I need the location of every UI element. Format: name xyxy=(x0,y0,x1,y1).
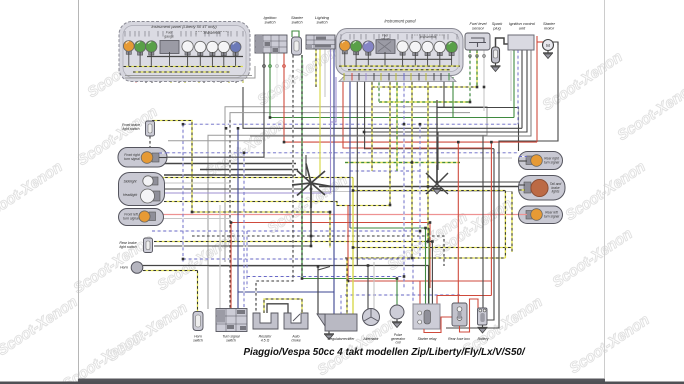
panel bulb white 1 xyxy=(182,41,193,55)
wire xyxy=(198,75,200,83)
panel bulb blue xyxy=(230,42,241,56)
wire xyxy=(371,77,373,171)
wire xyxy=(149,136,151,164)
wire xyxy=(352,178,354,315)
svg-text:Battery: Battery xyxy=(477,337,488,341)
wire xyxy=(168,140,262,142)
wire xyxy=(349,77,351,228)
page bottom shadow bar xyxy=(78,379,605,384)
wire xyxy=(133,71,230,73)
wire xyxy=(160,177,353,179)
bulb violet p2 xyxy=(363,41,374,55)
wire xyxy=(424,317,452,333)
wire xyxy=(208,266,330,268)
rear right turn signal xyxy=(519,152,563,170)
svg-text:Rear fuse box: Rear fuse box xyxy=(448,337,470,341)
bulb white p2 1 xyxy=(397,41,408,55)
wire xyxy=(428,228,430,304)
wire xyxy=(264,299,302,313)
wire xyxy=(182,124,184,262)
front brake light switch xyxy=(146,121,155,136)
wire xyxy=(519,156,527,158)
wire xyxy=(145,75,147,83)
wire xyxy=(519,184,525,186)
wire xyxy=(395,73,397,81)
wire xyxy=(154,241,432,243)
wire xyxy=(143,265,429,267)
bulb white p2 2 xyxy=(410,41,421,55)
junction star 1 xyxy=(292,164,331,209)
bulb white p2 3 xyxy=(422,41,433,55)
instrument panel (Liberty 50 4T only) xyxy=(119,22,255,82)
wire xyxy=(389,77,391,205)
svg-text:Sidelight: Sidelight xyxy=(123,180,137,184)
wire xyxy=(238,291,334,293)
wire xyxy=(220,75,222,83)
starter switch xyxy=(292,37,302,55)
front right turn signal xyxy=(118,148,167,168)
wire xyxy=(436,100,438,184)
wire xyxy=(443,77,445,108)
wire xyxy=(242,75,244,83)
wire xyxy=(448,73,450,81)
wire xyxy=(319,186,521,188)
wire xyxy=(536,36,538,142)
wire xyxy=(348,280,491,282)
wire xyxy=(513,50,515,118)
wire xyxy=(318,267,330,271)
wire xyxy=(310,191,512,193)
wire xyxy=(302,278,397,280)
wire xyxy=(425,228,427,304)
wire xyxy=(437,181,521,183)
wire xyxy=(452,77,454,118)
indicator bulb orange xyxy=(123,41,134,55)
wire xyxy=(283,53,285,142)
wire xyxy=(151,75,153,83)
fuel gauge 2 xyxy=(376,40,395,54)
wire xyxy=(437,108,519,152)
wire xyxy=(230,223,232,309)
wire xyxy=(250,50,531,136)
wire xyxy=(161,152,519,154)
wire xyxy=(124,66,244,68)
fuel gauge 1 xyxy=(160,41,179,54)
wire xyxy=(339,65,460,67)
rear fuse box xyxy=(452,303,467,326)
wire xyxy=(143,270,198,272)
wire xyxy=(292,31,299,37)
wire xyxy=(164,192,331,194)
wire xyxy=(348,69,450,71)
panel bulb white 2 xyxy=(195,41,206,55)
instrument panel 2 xyxy=(336,19,463,82)
page left edge xyxy=(78,0,80,378)
ground spark plug xyxy=(491,64,501,72)
svg-text:Rear brakelight switch: Rear brakelight switch xyxy=(119,241,136,249)
wire xyxy=(425,73,427,81)
wire xyxy=(269,53,271,118)
wire xyxy=(228,75,230,83)
svg-text:Lightingswitch: Lightingswitch xyxy=(315,15,330,25)
wire xyxy=(350,170,420,172)
wire xyxy=(519,160,527,162)
wire xyxy=(419,281,421,304)
wire xyxy=(345,294,460,296)
wire xyxy=(553,42,558,45)
wire xyxy=(192,236,444,266)
bulb green p2 xyxy=(350,41,361,55)
wire xyxy=(152,230,420,232)
wire xyxy=(446,42,558,328)
wire xyxy=(284,141,537,143)
wire xyxy=(152,121,192,213)
wire xyxy=(343,77,491,148)
wire xyxy=(333,48,335,314)
wire xyxy=(237,128,239,308)
ground regulator xyxy=(324,332,334,340)
front left turn signal xyxy=(119,209,164,226)
page right edge xyxy=(604,0,606,378)
wire xyxy=(213,75,215,83)
junction dots xyxy=(283,141,286,144)
wire xyxy=(162,214,519,216)
wire xyxy=(247,276,404,278)
svg-text:Headlight: Headlight xyxy=(123,193,138,197)
ground pulse coil xyxy=(392,320,402,328)
wire xyxy=(510,50,512,101)
wire xyxy=(330,48,332,193)
wire xyxy=(388,73,390,81)
svg-text:Front leftturn signal: Front leftturn signal xyxy=(123,213,139,221)
ignition control unit xyxy=(508,35,534,50)
lighting switch xyxy=(306,35,335,49)
wire xyxy=(154,245,311,247)
wire xyxy=(364,131,438,133)
wire xyxy=(437,132,439,170)
wire xyxy=(178,75,180,83)
svg-text:Alternator: Alternator xyxy=(362,337,379,341)
wire xyxy=(418,73,420,81)
turn signal switch xyxy=(216,309,247,332)
svg-text:Ignitionswitch: Ignitionswitch xyxy=(264,15,278,25)
wire xyxy=(159,152,167,154)
wire xyxy=(427,77,429,242)
junction star 2 xyxy=(426,165,448,194)
svg-text:Horn: Horn xyxy=(120,266,128,270)
wire xyxy=(411,77,413,258)
bulb white p2 4 xyxy=(434,41,445,55)
wire xyxy=(364,77,366,149)
wire xyxy=(125,66,255,78)
wire xyxy=(436,296,438,305)
wire xyxy=(164,174,296,176)
wire xyxy=(343,73,345,81)
wire xyxy=(378,77,380,102)
wire xyxy=(315,48,317,87)
wire xyxy=(267,304,288,313)
ground starter motor xyxy=(543,51,553,59)
wire xyxy=(517,50,519,124)
bottom strip xyxy=(0,382,684,384)
wire xyxy=(346,258,348,314)
wire xyxy=(345,162,460,164)
wire xyxy=(317,267,319,315)
wire xyxy=(331,77,337,122)
tail and brake lights xyxy=(519,176,566,201)
wire xyxy=(208,107,487,309)
wire xyxy=(428,266,430,305)
wire xyxy=(345,257,505,259)
wire xyxy=(183,123,518,125)
panel 2 internal bus xyxy=(356,58,452,60)
wire xyxy=(483,50,485,111)
rear brake light switch xyxy=(144,238,153,253)
bulb orange p2 xyxy=(339,40,350,54)
wire xyxy=(490,142,492,295)
wire xyxy=(270,117,514,119)
wire xyxy=(347,205,349,281)
indicator bulb green 1 xyxy=(134,41,145,55)
wire xyxy=(256,55,293,313)
wire xyxy=(440,73,442,81)
wire xyxy=(356,77,358,266)
wire xyxy=(329,212,331,248)
wire xyxy=(183,259,413,304)
wire xyxy=(431,242,433,305)
wire xyxy=(396,77,398,171)
panel bulb white 3 xyxy=(207,41,218,55)
bulb green p2 right xyxy=(446,41,457,55)
wire xyxy=(162,218,231,220)
wire xyxy=(229,120,231,309)
svg-text:Hornswitch: Hornswitch xyxy=(193,335,203,343)
panel 1 internal bus xyxy=(147,56,243,58)
wire xyxy=(231,223,430,289)
wire xyxy=(170,75,172,83)
horn xyxy=(131,262,143,274)
wire xyxy=(164,202,390,206)
svg-text:Instruments: Instruments xyxy=(420,35,437,39)
wire xyxy=(352,190,505,192)
wire xyxy=(125,75,252,77)
wire xyxy=(340,295,342,314)
pulse generator coil xyxy=(390,305,404,319)
wire xyxy=(469,50,471,102)
wire xyxy=(319,48,321,178)
wire xyxy=(511,192,513,253)
wire xyxy=(403,77,405,288)
svg-text:Piaggio/Vespa 50cc 4 takt mode: Piaggio/Vespa 50cc 4 takt modellen Zip/L… xyxy=(243,347,525,358)
wire xyxy=(373,262,375,309)
svg-text:Startermotor: Startermotor xyxy=(543,21,556,31)
wire xyxy=(403,73,405,81)
wire xyxy=(504,191,506,259)
wire xyxy=(310,189,312,246)
wire xyxy=(243,153,245,309)
wire xyxy=(351,73,353,81)
wire xyxy=(264,157,512,159)
wire xyxy=(350,227,429,229)
svg-text:M: M xyxy=(546,43,550,48)
wire xyxy=(537,41,543,43)
wire xyxy=(159,157,167,159)
wire xyxy=(419,124,421,259)
wire xyxy=(230,113,470,120)
wire xyxy=(324,48,326,97)
fuel level sensor xyxy=(465,33,490,50)
svg-text:Front rightturn signal: Front rightturn signal xyxy=(124,153,141,161)
wire xyxy=(437,295,491,297)
starter relay xyxy=(413,304,440,329)
wire xyxy=(482,135,484,308)
wire xyxy=(365,73,367,81)
wire xyxy=(496,38,510,47)
wire xyxy=(373,73,375,81)
wire xyxy=(305,155,307,176)
wire xyxy=(380,73,382,81)
svg-text:Rear leftturn signal: Rear leftturn signal xyxy=(544,211,559,219)
wire xyxy=(379,101,470,103)
horn switch xyxy=(193,312,203,331)
wire xyxy=(476,50,478,87)
svg-text:Rear rightturn signal: Rear rightturn signal xyxy=(544,157,560,165)
wire xyxy=(519,189,525,191)
svg-text:Autochoke: Autochoke xyxy=(291,335,300,343)
wire xyxy=(396,279,398,307)
rear left turn signal xyxy=(519,206,563,224)
wire xyxy=(164,182,230,184)
wire xyxy=(167,53,264,157)
wire xyxy=(192,211,330,213)
svg-text:Starter relay: Starter relay xyxy=(417,337,436,341)
wire xyxy=(457,142,459,303)
panel bulb white 4 xyxy=(218,41,229,55)
wire xyxy=(219,205,221,309)
svg-text:Regulatorrectifier: Regulatorrectifier xyxy=(328,337,355,341)
headlight unit xyxy=(119,173,165,206)
wire xyxy=(152,163,296,165)
wire xyxy=(460,299,479,332)
wire xyxy=(235,75,237,83)
svg-text:Front brakelight switch: Front brakelight switch xyxy=(122,123,140,131)
ground battery xyxy=(478,325,488,333)
wire xyxy=(364,148,494,150)
wire xyxy=(161,188,303,190)
svg-text:Instruments: Instruments xyxy=(204,31,221,35)
wire xyxy=(410,73,412,81)
wire xyxy=(358,73,360,81)
wire xyxy=(276,53,278,97)
wire xyxy=(203,75,205,83)
wire xyxy=(352,247,512,249)
wire xyxy=(243,87,522,128)
wire xyxy=(519,214,527,216)
wire xyxy=(301,55,303,279)
ignition switch xyxy=(255,35,287,53)
wire xyxy=(246,231,248,288)
indicator bulb green 2 xyxy=(146,41,157,55)
wire xyxy=(159,75,161,83)
battery xyxy=(478,308,488,325)
ground under star 2 xyxy=(432,186,442,194)
wire xyxy=(433,73,435,81)
wire xyxy=(521,50,523,128)
wire xyxy=(367,266,369,310)
svg-text:Instrument panel (Liberty 50 4: Instrument panel (Liberty 50 4T only) xyxy=(151,24,217,29)
wire xyxy=(200,169,298,171)
wire xyxy=(487,149,494,320)
wire xyxy=(135,75,137,83)
svg-text:Starterswitch: Starterswitch xyxy=(291,15,304,25)
wire xyxy=(184,75,186,83)
auto choke xyxy=(284,313,308,329)
wire xyxy=(438,50,527,132)
svg-text:Instrument panel: Instrument panel xyxy=(384,19,416,24)
wire xyxy=(197,271,199,312)
wire xyxy=(372,86,477,88)
